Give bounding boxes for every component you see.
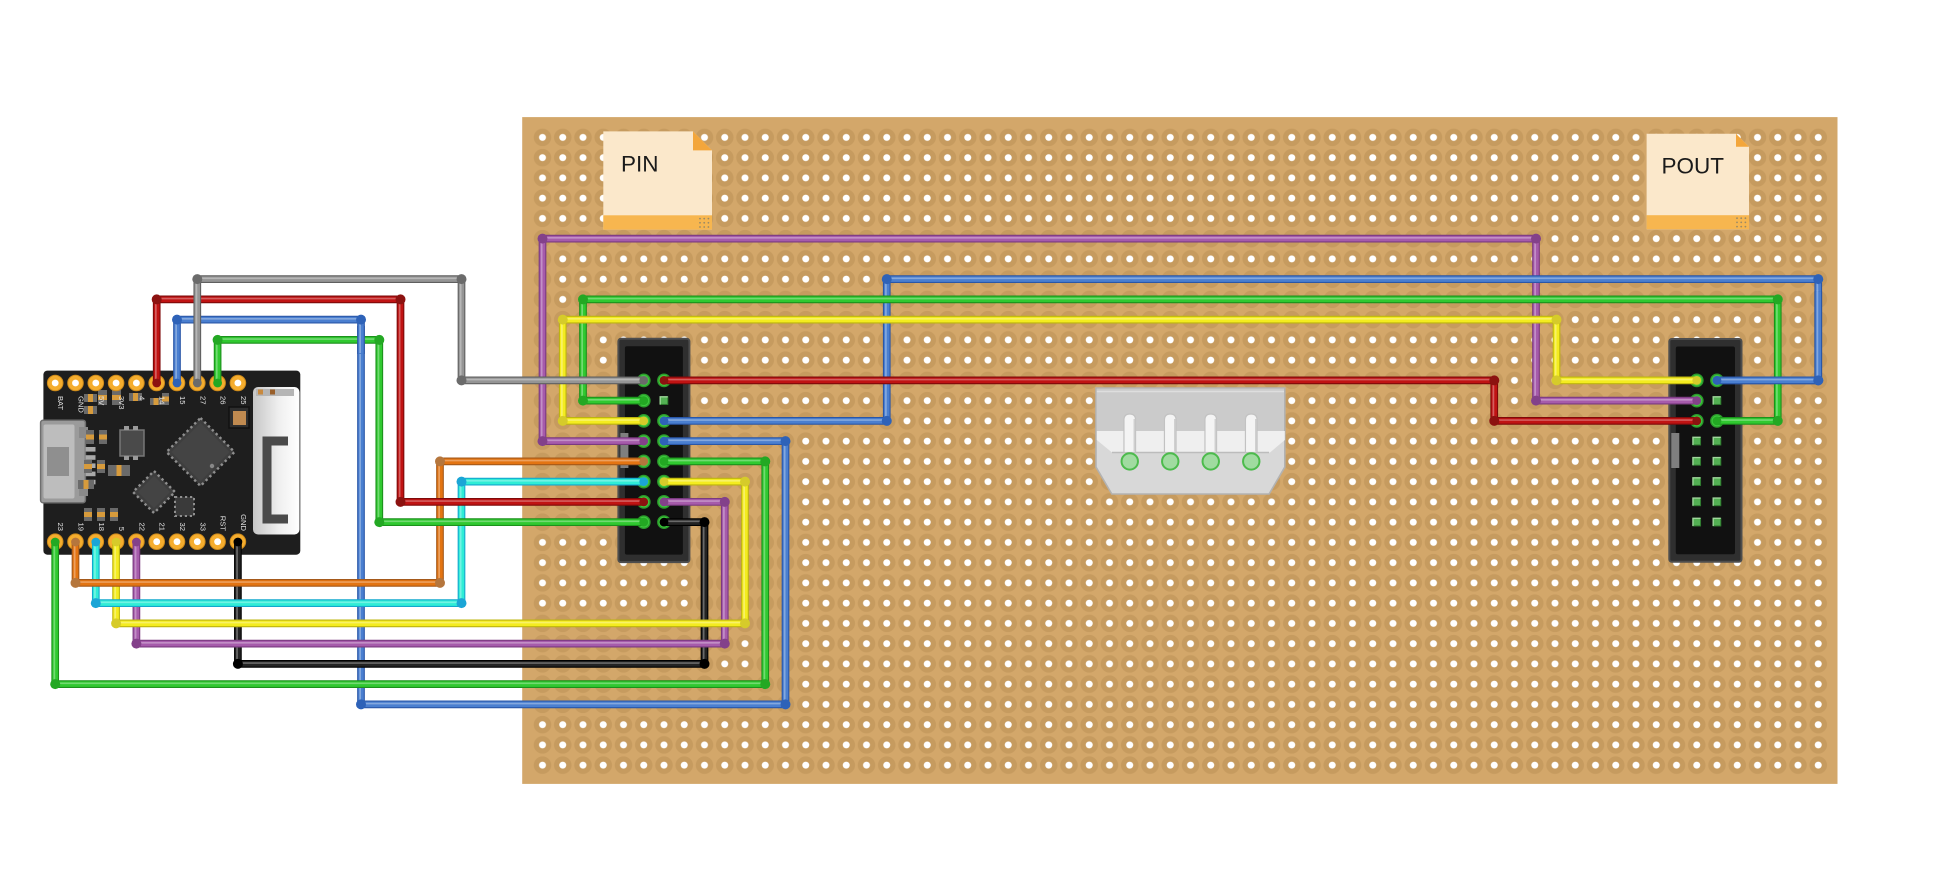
svg-text:14: 14 <box>158 396 167 404</box>
svg-text:4: 4 <box>137 396 146 400</box>
svg-text:15: 15 <box>178 396 187 404</box>
svg-text:27: 27 <box>198 396 207 404</box>
svg-text:18: 18 <box>97 523 106 531</box>
svg-text:19: 19 <box>77 523 86 531</box>
svg-text:GND: GND <box>239 514 248 531</box>
svg-text:33: 33 <box>198 523 207 531</box>
svg-text:PIN: PIN <box>621 151 659 176</box>
svg-text:32: 32 <box>178 523 187 531</box>
svg-text:26: 26 <box>219 396 228 404</box>
svg-text:3V3: 3V3 <box>117 396 126 410</box>
svg-text:23: 23 <box>56 523 65 531</box>
svg-text:21: 21 <box>158 523 167 531</box>
svg-text:5V: 5V <box>97 396 106 406</box>
svg-text:RST: RST <box>219 516 228 532</box>
svg-text:22: 22 <box>137 523 146 531</box>
svg-text:5: 5 <box>117 527 126 531</box>
svg-text:GND: GND <box>77 396 86 413</box>
svg-text:POUT: POUT <box>1662 154 1725 179</box>
svg-text:BAT: BAT <box>56 396 65 411</box>
svg-text:25: 25 <box>239 396 248 404</box>
